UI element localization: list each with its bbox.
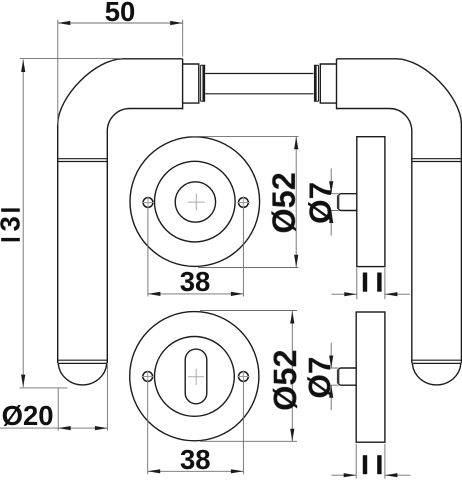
dim 11 bottom: arrows bbox=[344, 473, 357, 477]
rosette bottom: middle circle bbox=[155, 337, 235, 417]
dim 38 top: extension lines bbox=[148, 208, 244, 297]
dim O7 top: leader lines bbox=[330, 169, 332, 236]
svg-text:Ø7: Ø7 bbox=[301, 357, 337, 399]
dim 38 bottom: extension lines bbox=[148, 382, 244, 475]
dim 11 bottom: leader lines bbox=[332, 474, 411, 476]
dim 11 top: extension lines bbox=[357, 268, 385, 299]
dim O7 top: arrows bbox=[329, 181, 333, 194]
svg-text:Ø7: Ø7 bbox=[302, 182, 338, 224]
side view top: pin end cap bbox=[337, 196, 339, 208]
dim O20: extension lines bbox=[58, 365, 107, 431]
dim 50: dimension line bbox=[58, 22, 183, 24]
handle R (front view right, mirrored) bbox=[314, 59, 462, 385]
dim 11 bottom: extension lines bbox=[356, 444, 385, 479]
side view top: rosette plate bbox=[357, 137, 385, 267]
rosette bottom: screw right bbox=[239, 372, 249, 382]
handle L (front view left) bbox=[58, 59, 206, 385]
svg-text:50: 50 bbox=[105, 0, 136, 27]
svg-text:3: 3 bbox=[0, 216, 26, 231]
dim 38 top: arrows bbox=[148, 292, 161, 296]
dim 131: extension lines bbox=[20, 59, 123, 388]
side view top: spindle pin bbox=[338, 194, 357, 211]
dim O52 top: dimension line bbox=[295, 137, 297, 268]
side view bottom: pin end cap bbox=[337, 371, 339, 383]
dim O20: leader + dimension line bbox=[0, 427, 107, 429]
dim O20: arrows bbox=[58, 426, 70, 430]
rosette top: handle bore circle bbox=[175, 182, 215, 222]
rosette bottom: screw left bbox=[143, 372, 153, 382]
side view bottom: rosette plate bbox=[356, 312, 385, 442]
dim 38 bottom: arrows bbox=[148, 469, 161, 473]
rosette top: screw left bbox=[143, 198, 153, 208]
dim 38 top: dimension line bbox=[148, 293, 244, 295]
spindle top line bbox=[205, 73, 313, 75]
rosette bottom (escutcheon): outer circle bbox=[130, 312, 259, 441]
rosette top: center cross bbox=[188, 194, 205, 210]
dim 38 bottom: dimension line bbox=[148, 470, 244, 472]
dim 11 top: leader lines bbox=[332, 293, 411, 295]
dim 50: arrows bbox=[58, 21, 71, 25]
dim 131: text digit 1 bbox=[1, 208, 20, 211]
rosette top: middle circle bbox=[155, 161, 236, 242]
side view bottom: spindle pin bbox=[338, 368, 356, 385]
rosette top: screw right bbox=[239, 198, 249, 208]
svg-text:Ø52: Ø52 bbox=[267, 349, 303, 410]
dim O7 top: extension lines bbox=[327, 194, 339, 211]
dim O52 bottom: dimension line bbox=[291, 311, 293, 441]
dim O52 bottom: extension lines bbox=[200, 311, 297, 442]
rosette top: outer circle bbox=[130, 137, 260, 267]
dim 131: text digit 1 (second) bbox=[1, 238, 20, 241]
dim O7 bottom: extension lines bbox=[327, 368, 339, 385]
dim O52 top: arrows bbox=[294, 137, 298, 150]
spindle bottom line bbox=[205, 93, 313, 95]
dim 11 top: text bbox=[363, 273, 367, 292]
dim 11 top: arrows bbox=[344, 292, 357, 296]
dim 131: arrows bbox=[21, 60, 25, 73]
svg-text:38: 38 bbox=[180, 266, 211, 297]
dim O52 top: extension lines bbox=[189, 136, 299, 267]
svg-text:38: 38 bbox=[180, 444, 211, 475]
dim O52 bottom: arrows bbox=[290, 311, 294, 324]
dim O7 bottom: leader lines bbox=[330, 343, 332, 410]
dim O7 bottom: arrows bbox=[329, 356, 333, 369]
dim 50: extension lines bbox=[58, 20, 183, 125]
svg-text:Ø52: Ø52 bbox=[266, 172, 302, 233]
rosette bottom: keyhole slot bbox=[185, 349, 207, 404]
svg-text:Ø20: Ø20 bbox=[2, 400, 54, 431]
dim 131: dimension line bbox=[22, 60, 24, 388]
rosette bottom: center cross bbox=[188, 369, 204, 385]
dim 11 bottom: text bbox=[363, 455, 367, 474]
